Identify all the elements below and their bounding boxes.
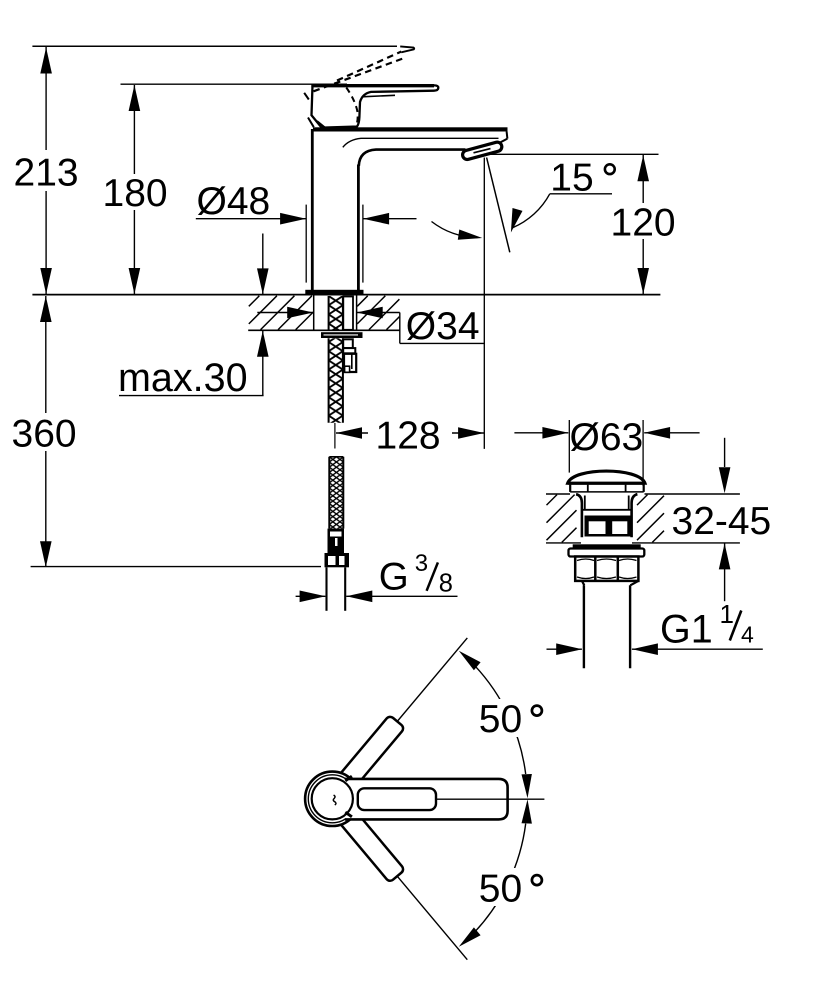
svg-text:Ø48: Ø48 [197,180,271,223]
lever top surface [358,788,436,810]
pull rod tube [343,297,353,330]
drain cap skirt [569,485,571,492]
handle neck junction marks [345,776,352,781]
deck hole left edge [313,295,315,330]
connection pipe G3/8 [325,567,327,611]
svg-text:4: 4 [741,622,754,648]
spout decorative top line [343,138,499,147]
basin slab hatching [547,495,558,506]
flexible hose braided [329,457,343,529]
svg-text:Ø63: Ø63 [570,416,644,459]
escutcheon outer circle [305,772,359,826]
raised lever dashed lower line [314,59,403,92]
15deg dimension arc right [512,194,549,228]
svg-text:8: 8 [439,570,453,598]
deck hole right edge [356,295,358,330]
deck hatching right [357,296,368,307]
svg-text:G: G [379,555,409,598]
drain seal washer [573,544,641,548]
dimension G3/8 line [296,595,326,597]
raised lever dashed upper line [337,49,407,81]
svg-text:max.30: max.30 [118,356,248,400]
svg-text:Ø34: Ø34 [406,305,480,348]
hose nut [325,553,350,567]
faucet body circle top view [312,778,353,819]
svg-text:32-45: 32-45 [672,500,772,543]
svg-text:15: 15 [550,157,593,200]
svg-text:50: 50 [479,698,522,741]
spout end bevel [497,139,507,144]
drain cap dome [568,471,645,483]
max.30 upper arrow to deck [262,234,264,295]
svg-text:1: 1 [720,599,734,629]
drain locknut [575,557,638,581]
drain flange [569,549,645,557]
top view: 50deg boundary line lower [352,822,468,960]
svg-text:3: 3 [415,550,428,577]
grohe logo mark [333,795,336,805]
svg-text:180: 180 [103,172,168,215]
aerator / mousseur [463,142,502,159]
centre line top view [437,798,545,800]
dimension G1 1/4 line [547,648,582,650]
dimension 180 vertical line [133,85,135,174]
dimension 128 line [336,432,368,434]
faucet body column right edge [357,165,360,292]
handle body and lever (closed position) [312,85,439,127]
raised handle dashed back edge marks [304,93,309,100]
threaded shank upper (in deck hole) [329,296,343,330]
drain body neck [576,494,582,537]
basin slab bottom line [546,542,581,544]
water stream line 15deg [487,158,510,253]
shank centre line [334,423,336,449]
extension lines d48 (faucet base width) [305,205,307,283]
top view: 50deg boundary line upper [352,638,468,776]
threaded shank lower [329,338,343,423]
rotated handle position upper [336,715,405,791]
drain: extension lines d63 [568,420,570,473]
50deg dimension arc upper [475,666,526,774]
dimension 32-45 [724,438,726,467]
extension line: spout height (120 top) [489,153,659,155]
50deg dimension arc lower [475,824,526,932]
svg-text:120: 120 [611,202,676,245]
dimension 120 vertical line [642,155,644,203]
svg-text:213: 213 [14,151,79,194]
drain tailpipe [582,581,584,585]
lever far-side line [362,95,396,97]
faucet base plate [305,290,363,296]
extension line: overall height top (213) [32,45,397,47]
handle outline top view [345,779,508,820]
svg-text:128: 128 [376,415,441,458]
label 50deg lower [477,868,553,906]
faucet top plate [313,127,508,131]
raised handle dashed neck [346,88,357,127]
drain body internals [584,496,586,510]
svg-text:G1: G1 [660,607,713,651]
15deg dimension arc left [432,222,478,238]
label 50deg upper [477,699,553,737]
hose end fitting [328,529,345,553]
dimension lines for d48 [196,218,306,220]
spout right end edge [506,132,509,139]
mounting washer below deck [321,332,363,338]
dimension 360 vertical line [45,296,47,413]
pull rod hardware [343,339,353,348]
spout underside [359,150,466,166]
extension line: hose end (360 bottom) [31,566,321,568]
handle lever top edge (thick) [311,84,434,87]
label diameter 34 with leader [257,312,313,314]
faucet body column left edge [311,129,314,291]
svg-text:360: 360 [12,413,77,456]
spout outlet vertical extension line [483,158,485,449]
svg-text:50: 50 [479,868,522,911]
deck hatching left [249,296,259,307]
basin slab top line [546,493,570,495]
rotated handle position lower [336,806,405,882]
extension line: handle height (180) [121,83,348,85]
raised lever tip (solid) [400,46,414,52]
dimension d63 arrows [514,432,568,434]
deck / counter top line [32,294,660,296]
escutcheon ring [308,775,356,823]
deck slab bottom line [248,329,400,331]
dimension 213 vertical line [45,47,47,150]
